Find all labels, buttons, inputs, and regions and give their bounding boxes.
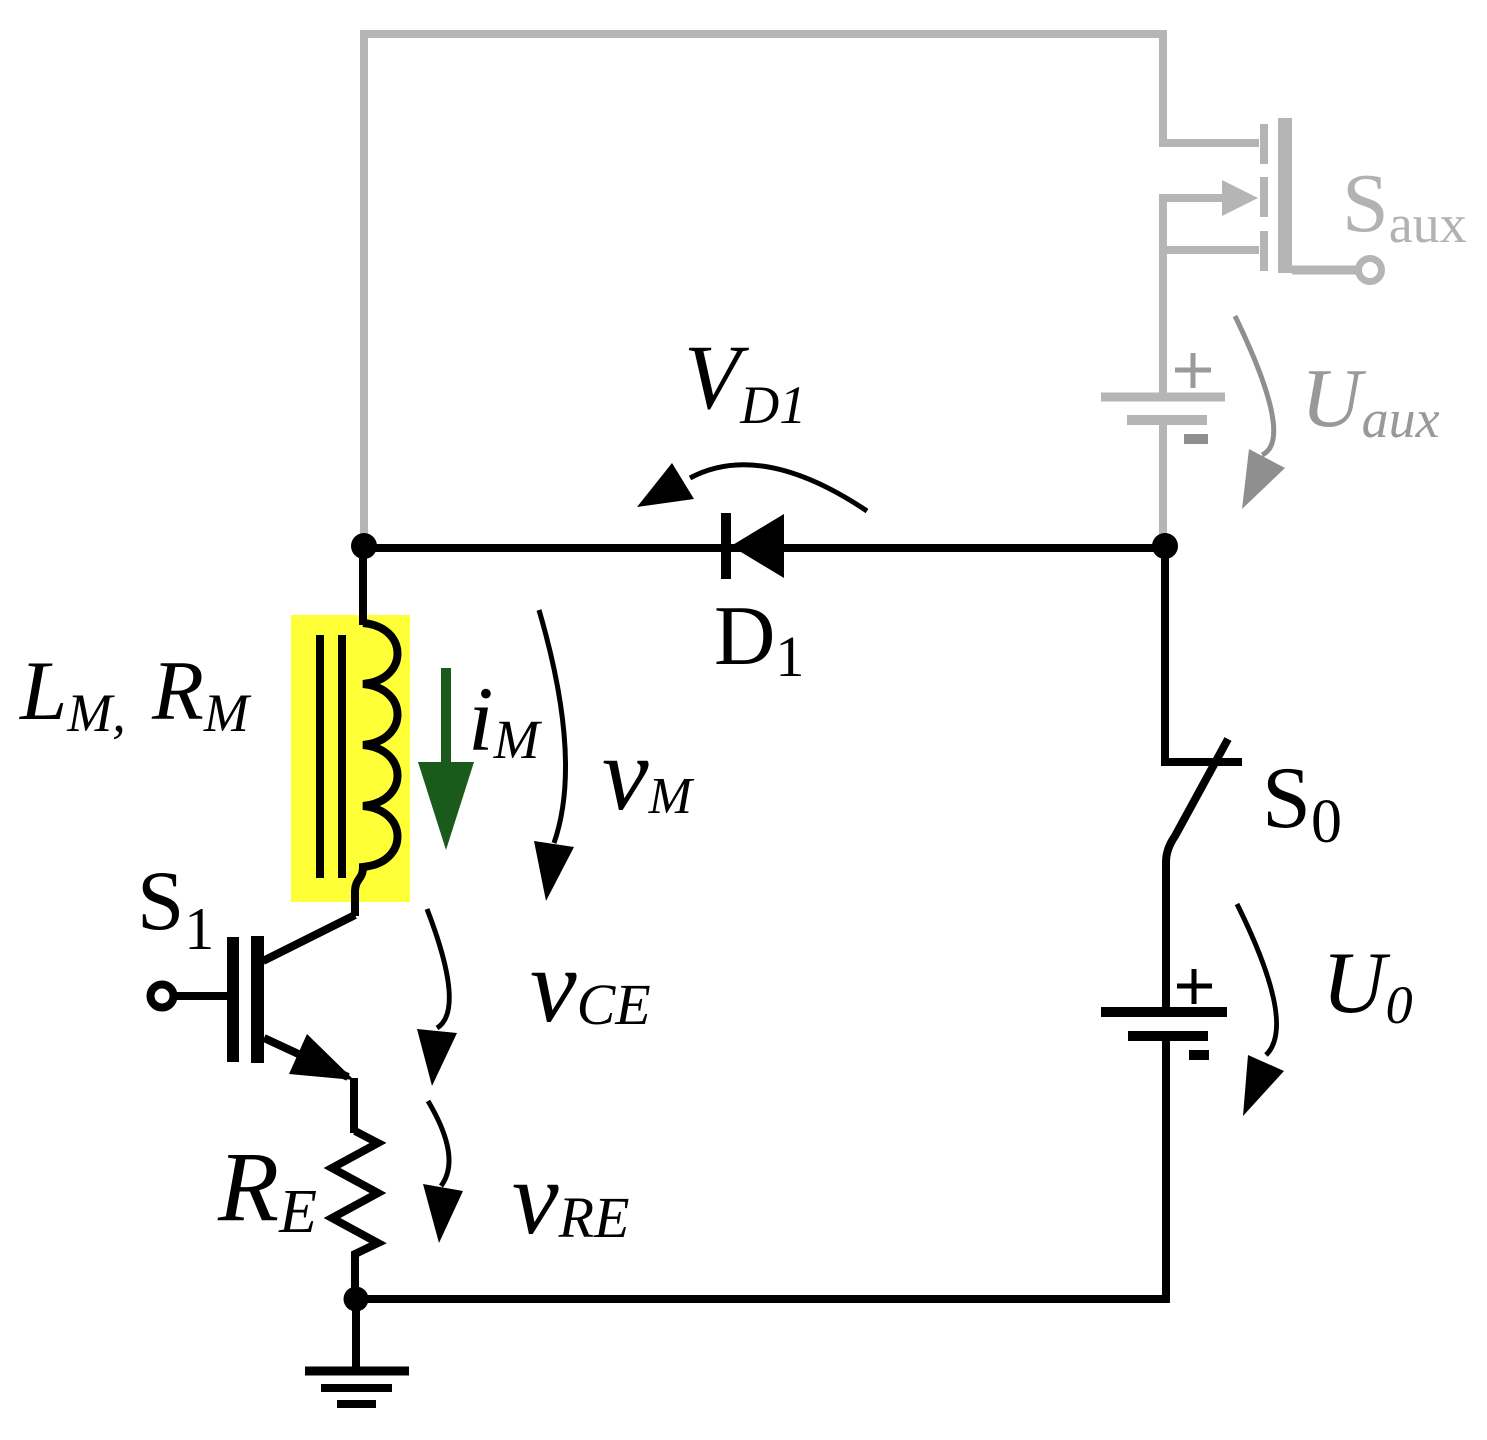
arrow v_RE <box>428 1101 449 1186</box>
wire node B to switch <box>1165 546 1242 762</box>
battery U0 plates <box>1101 1007 1227 1017</box>
transistor S1 emitter <box>264 1038 348 1077</box>
diode D1 <box>721 513 731 579</box>
battery U_aux plus <box>1175 353 1211 388</box>
transistor S1 collector lead <box>263 915 355 961</box>
svg-text:S1: S1 <box>137 854 214 962</box>
svg-text:RM: RM <box>151 644 252 743</box>
transistor S_aux channel <box>1260 124 1268 271</box>
wire emitter to resistor <box>350 1078 358 1133</box>
svg-text:LM,: LM, <box>19 644 126 743</box>
svg-text:U0: U0 <box>1322 935 1413 1035</box>
ground <box>305 1367 409 1376</box>
wire S_aux source to battery <box>1159 194 1167 393</box>
battery U0 plus <box>1177 969 1212 1004</box>
highlight on magnet coil <box>291 615 410 902</box>
inductor L_M coil <box>355 623 398 916</box>
wire top (node A to node B) <box>364 544 1165 552</box>
wire bottom (node C to right branch) <box>356 1295 1170 1303</box>
transistor S1 body bar <box>251 936 264 1063</box>
svg-text:Saux: Saux <box>1342 157 1467 254</box>
svg-text:RE: RE <box>217 1131 317 1246</box>
transistor S_aux gate terminal <box>1359 259 1382 282</box>
transistor S1 gate terminal <box>151 985 174 1008</box>
transistor S1 gate lead <box>176 992 227 1000</box>
transistor S_aux body arrow <box>1163 194 1222 202</box>
svg-text:VD1: VD1 <box>684 326 806 435</box>
arrow V_D1 <box>690 465 867 511</box>
arrow v_CE <box>427 909 449 1028</box>
arrow U_aux <box>1235 316 1274 455</box>
battery U0 minus <box>1189 1050 1209 1060</box>
battery U_aux minus <box>1184 434 1208 444</box>
svg-text:vRE: vRE <box>512 1139 629 1256</box>
svg-text:vCE: vCE <box>530 927 651 1044</box>
wire battery U0 to bottom <box>1162 1041 1170 1299</box>
transistor S_aux gate bar <box>1278 118 1292 273</box>
transistor S1 gate bar <box>227 937 239 1062</box>
svg-text:D1: D1 <box>714 589 804 689</box>
svg-text:S0: S0 <box>1262 750 1342 856</box>
svg-text:vM: vM <box>602 715 695 832</box>
node B <box>1152 533 1178 559</box>
wire gray top rail <box>364 34 1259 550</box>
arrow v_M <box>539 610 566 843</box>
svg-text:iM: iM <box>468 668 543 770</box>
arrow U0 <box>1237 904 1277 1055</box>
node A <box>351 533 377 559</box>
arrow i_M (green) <box>441 668 451 762</box>
battery U_aux plates <box>1101 393 1225 402</box>
resistor R_E <box>332 1131 378 1299</box>
wire node A to inductor <box>359 542 367 625</box>
node C <box>344 1287 369 1312</box>
transistor S_aux gate lead <box>1292 266 1358 275</box>
svg-text:Uaux: Uaux <box>1301 352 1440 449</box>
inductor core lines <box>320 635 342 878</box>
transistor S_aux source stub <box>1163 246 1259 254</box>
wire gray battery to node B <box>1159 424 1167 546</box>
wire node C to ground <box>352 1299 360 1371</box>
switch S0 blade <box>1166 739 1228 1007</box>
